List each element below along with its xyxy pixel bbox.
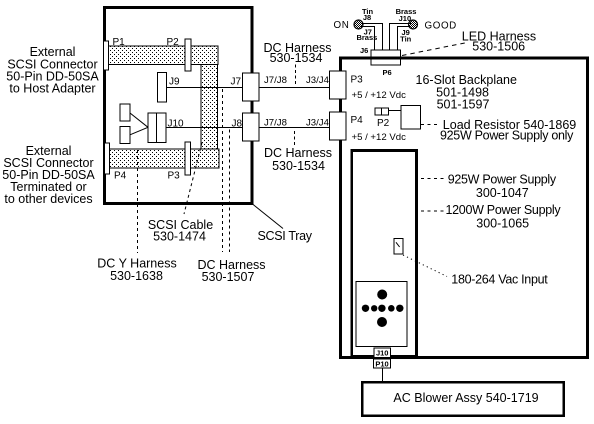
svg-text:501-1597: 501-1597 (437, 98, 490, 112)
svg-text:530-1534: 530-1534 (272, 159, 325, 173)
svg-text:to Host Adapter: to Host Adapter (9, 82, 95, 96)
wire Y upper prong (130, 113, 148, 127)
svg-text:to other devices: to other devices (4, 192, 92, 206)
svg-text:P3: P3 (168, 171, 181, 182)
load resistor block (401, 106, 421, 130)
connector J3/J4 lower (330, 112, 347, 140)
svg-text:J9: J9 (169, 77, 180, 88)
LED GOOD (409, 20, 418, 29)
wire LED ON J8 (361, 24, 383, 51)
dashed pointer DC harness 530-1507 right (229, 130, 231, 253)
label SCSI cable (148, 218, 213, 243)
dotted pointer 180-264 Vac (403, 255, 447, 277)
connector J7 (243, 73, 260, 101)
svg-text:Tin: Tin (400, 35, 412, 44)
svg-text:530-1534: 530-1534 (270, 51, 323, 65)
svg-text:J3/J4: J3/J4 (306, 75, 330, 86)
label external SCSI connector terminated (2, 144, 95, 206)
connector J3/J4 upper (330, 71, 347, 99)
connector J10 psu (374, 348, 390, 358)
power supply enclosure (352, 151, 417, 357)
SCSI cable bottom ribbon P4-P3 (110, 149, 219, 168)
svg-text:ON: ON (334, 20, 350, 31)
label DC harness 530-1507 (197, 258, 265, 284)
label DC Y harness (97, 257, 176, 284)
DC Y harness stub connector upper (120, 104, 130, 121)
svg-text:+5 / +12 Vdc: +5 / +12 Vdc (352, 90, 407, 101)
wire J10 to J8 to J3/J4 (166, 127, 331, 129)
svg-text:J10: J10 (399, 14, 412, 23)
label J7 Brass (356, 27, 377, 42)
label Tin J8 (362, 7, 374, 22)
AC input connector (394, 239, 403, 255)
svg-text:J8: J8 (232, 119, 243, 130)
svg-text:DC Harness: DC Harness (264, 146, 332, 160)
svg-text:1200W Power Supply: 1200W Power Supply (446, 203, 562, 217)
wire LED GOOD J10 (390, 24, 412, 51)
wire LED ON J7 (361, 26, 375, 50)
svg-text:P2: P2 (377, 118, 390, 129)
wire LED GOOD J9 (398, 26, 411, 50)
DC Y harness stub connector lower (120, 127, 130, 144)
AC power socket box (356, 282, 407, 347)
connector P2 (375, 108, 389, 115)
label DC harness 530-1534 lower (264, 146, 332, 173)
dashed pointer SCSI cable (184, 143, 202, 215)
connector J10 (148, 113, 166, 143)
connector P1 (104, 41, 109, 70)
pointer SCSI tray (253, 204, 284, 229)
svg-text:925W Power Supply only: 925W Power Supply only (440, 129, 574, 143)
dashed pointer 925W (421, 178, 445, 180)
svg-text:P10: P10 (375, 360, 388, 369)
16-slot backplane enclosure (341, 58, 588, 358)
svg-text:P6: P6 (383, 68, 392, 77)
svg-text:SCSI Tray: SCSI Tray (258, 229, 313, 243)
svg-text:530-1474: 530-1474 (153, 229, 206, 243)
svg-text:P2: P2 (167, 37, 180, 48)
svg-text:300-1065: 300-1065 (476, 216, 529, 230)
wire P10 to blower (382, 368, 384, 382)
svg-text:J7/J8: J7/J8 (264, 75, 287, 86)
dashed pointer LED harness (402, 43, 467, 56)
connector P6/J6 (371, 50, 401, 65)
svg-text:+5 / +12 Vdc: +5 / +12 Vdc (352, 132, 407, 143)
connector P10 (374, 359, 391, 368)
dashed pointer DC harness lower (294, 131, 296, 146)
label external SCSI connector host (6, 45, 99, 95)
svg-text:J10: J10 (168, 119, 185, 130)
svg-text:P4: P4 (114, 171, 127, 182)
svg-text:GOOD: GOOD (425, 21, 457, 32)
label Brass J10 (396, 7, 417, 23)
svg-text:J3/J4: J3/J4 (306, 118, 330, 129)
connector P3 (185, 142, 191, 175)
AC blower assy box (362, 382, 563, 415)
svg-text:J7/J8: J7/J8 (264, 118, 287, 129)
connector P4 (105, 143, 110, 174)
LED ON (354, 20, 363, 29)
svg-text:180-264 Vac Input: 180-264 Vac Input (451, 273, 548, 287)
socket pin bottom (377, 317, 387, 327)
svg-text:Brass: Brass (356, 33, 377, 42)
SCSI tray enclosure (105, 8, 253, 204)
SCSI cable vertical ribbon (201, 65, 218, 150)
svg-text:J8: J8 (363, 13, 371, 22)
dashed pointer load resistor (421, 124, 438, 126)
svg-text:P3: P3 (351, 75, 364, 86)
dashed pointer DC harness 530-1507 left (222, 89, 224, 252)
svg-text:925W Power Supply: 925W Power Supply (448, 173, 557, 187)
connector J9 (158, 73, 167, 103)
connector P2 (185, 39, 191, 71)
SCSI cable top ribbon P1-P2 (109, 46, 219, 65)
label J9 Tin (400, 28, 412, 44)
svg-text:530-1506: 530-1506 (472, 40, 525, 54)
dashed pointer 1200W (421, 210, 444, 212)
socket pin top (377, 290, 387, 300)
socket pin row (362, 305, 404, 312)
svg-text:AC Blower Assy 540-1719: AC Blower Assy 540-1719 (393, 391, 538, 405)
connector J8 (243, 113, 260, 141)
wire J9 to J7 to J3/J4 (167, 87, 332, 89)
svg-text:530-1638: 530-1638 (110, 269, 163, 283)
svg-text:J6: J6 (360, 46, 368, 55)
label DC harness 530-1534 upper (263, 41, 331, 65)
svg-text:J7: J7 (231, 77, 242, 88)
svg-text:300-1047: 300-1047 (476, 186, 529, 200)
svg-text:530-1507: 530-1507 (202, 270, 255, 284)
svg-text:J10: J10 (376, 349, 389, 358)
svg-text:P1: P1 (113, 37, 126, 48)
svg-text:P4: P4 (351, 115, 364, 126)
wire Y lower prong (130, 127, 148, 135)
dashed pointer DC harness upper (295, 65, 297, 87)
dashed pointer DC Y harness (137, 150, 139, 253)
AC input tick (396, 242, 400, 247)
wire P2 to load resistor (389, 110, 402, 112)
